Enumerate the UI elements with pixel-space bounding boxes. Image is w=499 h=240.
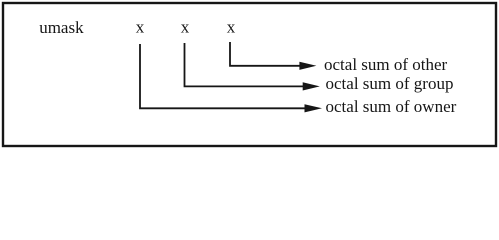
arrowhead other <box>299 62 316 70</box>
svg-text:octal sum of group: octal sum of group <box>326 74 454 93</box>
wire from owner x <box>140 44 305 108</box>
arrowhead owner <box>305 104 323 112</box>
svg-text:octal sum of other: octal sum of other <box>324 55 448 74</box>
wire from other x <box>230 42 300 66</box>
wire from group x <box>185 43 304 86</box>
svg-text:x: x <box>136 18 145 37</box>
svg-text:umask: umask <box>39 18 84 37</box>
svg-text:x: x <box>181 18 190 37</box>
svg-text:octal sum of owner: octal sum of owner <box>326 97 457 116</box>
arrowhead group <box>303 82 320 90</box>
border frame <box>3 3 496 146</box>
svg-text:x: x <box>227 18 236 37</box>
